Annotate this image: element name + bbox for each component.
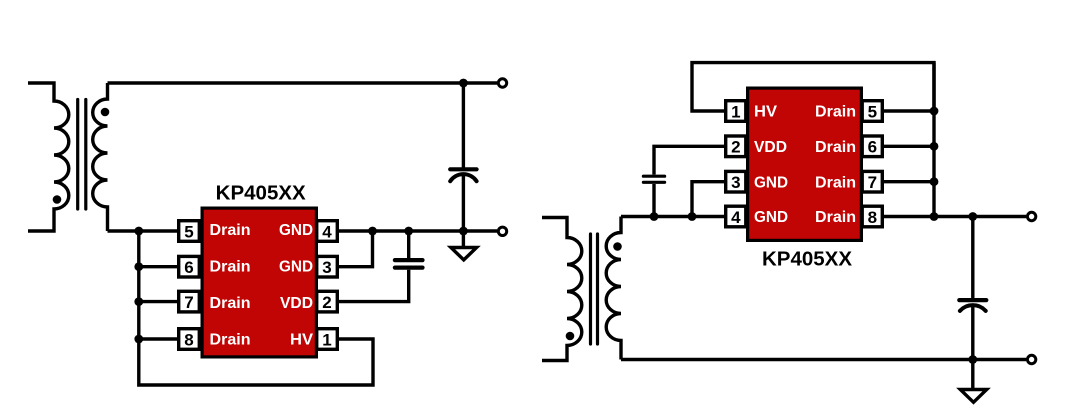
- svg-text:5: 5: [868, 102, 877, 121]
- svg-text:2: 2: [731, 138, 740, 157]
- svg-text:Drain: Drain: [210, 258, 251, 275]
- svg-text:GND: GND: [279, 222, 313, 239]
- svg-text:4: 4: [322, 222, 332, 241]
- svg-text:1: 1: [731, 102, 740, 121]
- svg-text:GND: GND: [754, 174, 788, 191]
- svg-text:3: 3: [322, 258, 331, 277]
- svg-text:HV: HV: [290, 332, 314, 349]
- svg-text:Drain: Drain: [815, 104, 856, 121]
- svg-text:KP405XX: KP405XX: [216, 182, 306, 205]
- svg-text:Drain: Drain: [210, 222, 251, 239]
- svg-text:8: 8: [868, 208, 877, 227]
- svg-text:7: 7: [868, 173, 877, 192]
- svg-text:Drain: Drain: [815, 139, 856, 156]
- svg-text:Drain: Drain: [210, 295, 251, 312]
- svg-text:Drain: Drain: [210, 332, 251, 349]
- svg-text:VDD: VDD: [754, 139, 787, 156]
- svg-text:8: 8: [184, 330, 193, 349]
- svg-text:7: 7: [184, 293, 193, 312]
- svg-text:GND: GND: [279, 258, 313, 275]
- svg-text:4: 4: [731, 208, 741, 227]
- svg-text:1: 1: [322, 330, 331, 349]
- svg-text:Drain: Drain: [815, 209, 856, 226]
- svg-text:5: 5: [184, 222, 193, 241]
- svg-text:3: 3: [731, 173, 740, 192]
- svg-text:KP405XX: KP405XX: [762, 248, 852, 271]
- svg-text:GND: GND: [754, 209, 788, 226]
- svg-text:6: 6: [184, 258, 193, 277]
- svg-text:6: 6: [868, 138, 877, 157]
- svg-text:2: 2: [322, 293, 331, 312]
- svg-text:VDD: VDD: [280, 295, 313, 312]
- svg-text:Drain: Drain: [815, 174, 856, 191]
- svg-text:HV: HV: [754, 104, 778, 121]
